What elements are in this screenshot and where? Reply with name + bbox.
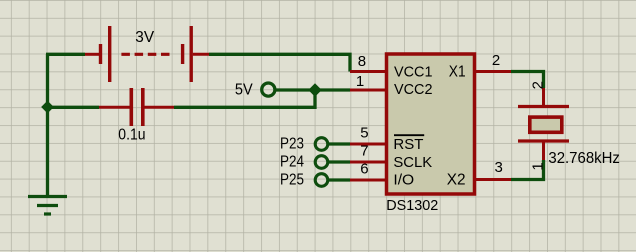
IC U1 DS1302 [386,54,474,214]
wire: P23 stub [329,142,350,145]
svg-text:X1: X1 [449,64,466,81]
svg-text:6: 6 [360,160,368,177]
svg-text:1: 1 [530,162,547,170]
pin 2 X1 [449,52,511,81]
terminal P23 [280,136,328,153]
svg-text:RST: RST [393,136,423,153]
svg-text:0.1u: 0.1u [118,126,145,143]
svg-text:P25: P25 [280,172,304,189]
pin 6 I/O [350,160,414,188]
svg-text:VCC2: VCC2 [394,81,433,98]
svg-text:3: 3 [495,159,503,176]
svg-text:1: 1 [356,73,364,90]
svg-text:5V: 5V [235,82,253,99]
terminal P24 [280,154,328,171]
junction node B (5V rail) [309,84,321,96]
svg-text:7: 7 [360,142,368,159]
svg-text:DS1302: DS1302 [386,197,438,214]
svg-text:I/O: I/O [393,172,414,189]
svg-text:2: 2 [529,81,546,89]
wire: capacitor to 5V junction riser [174,90,315,107]
junction node A (left) [42,102,53,113]
capacitor 0.1u [99,88,174,143]
svg-text:X2: X2 [447,172,466,189]
terminal P25 [280,172,328,189]
pin 3 X2 [447,159,511,188]
pin 5 RST [350,124,424,153]
pin 1 VCC2 [350,73,433,98]
wire: X1 pin2 to crystal top [511,72,544,89]
svg-text:3V: 3V [135,29,154,46]
pin 8 VCC1 [350,53,433,80]
svg-text:VCC1: VCC1 [394,63,433,80]
svg-text:P24: P24 [280,154,304,171]
svg-text:2: 2 [492,52,500,69]
wire: P24 stub [329,160,350,163]
svg-text:SCLK: SCLK [393,154,432,171]
wire: node to capacitor [48,106,100,109]
svg-text:8: 8 [358,53,366,70]
wire: crystal bottom to X2 pin3 [511,160,544,180]
battery BT 3V [85,26,209,82]
wire: 5V terminal to chip pin1 [276,88,350,91]
wire: left vertical from top rail down to ground [46,54,49,196]
wire: top rail from left corner to battery [46,53,85,56]
svg-text:P23: P23 [280,136,304,153]
power terminal 5V [235,82,275,99]
crystal X 32.768kHz [518,81,620,171]
ground [28,197,67,215]
svg-text:5: 5 [360,124,368,141]
wire: battery to chip pin8 corner [209,54,350,71]
pin 7 SCLK [350,142,432,170]
svg-text:32.768kHz: 32.768kHz [548,150,620,167]
wire: P25 stub [329,178,350,181]
